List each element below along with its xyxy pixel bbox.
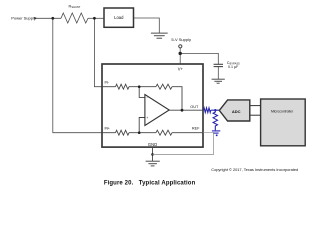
svg-text:OUT: OUT <box>190 105 199 109</box>
svg-text:IN+: IN+ <box>105 127 110 131</box>
svg-text:ADC: ADC <box>232 109 241 114</box>
svg-text:IN-: IN- <box>105 80 110 84</box>
svg-text:Load: Load <box>114 15 124 20</box>
svg-text:V+: V+ <box>178 67 184 72</box>
svg-text:−: − <box>146 96 148 100</box>
svg-text:GND: GND <box>148 142 157 147</box>
svg-text:+: + <box>146 116 148 120</box>
svg-text:SHUNT: SHUNT <box>71 5 80 9</box>
svg-text:Figure 20. Typical Applicati: Figure 20. Typical Application <box>104 181 196 187</box>
svg-text:5-V Supply: 5-V Supply <box>171 37 191 42</box>
svg-text:Microcontroller: Microcontroller <box>271 109 294 113</box>
svg-text:0.1 µF: 0.1 µF <box>228 65 239 69</box>
svg-text:REF: REF <box>192 127 200 131</box>
svg-text:Copyright © 2017, Texas Instru: Copyright © 2017, Texas Instruments Inco… <box>211 167 298 172</box>
svg-text:Power Supply: Power Supply <box>11 15 36 20</box>
